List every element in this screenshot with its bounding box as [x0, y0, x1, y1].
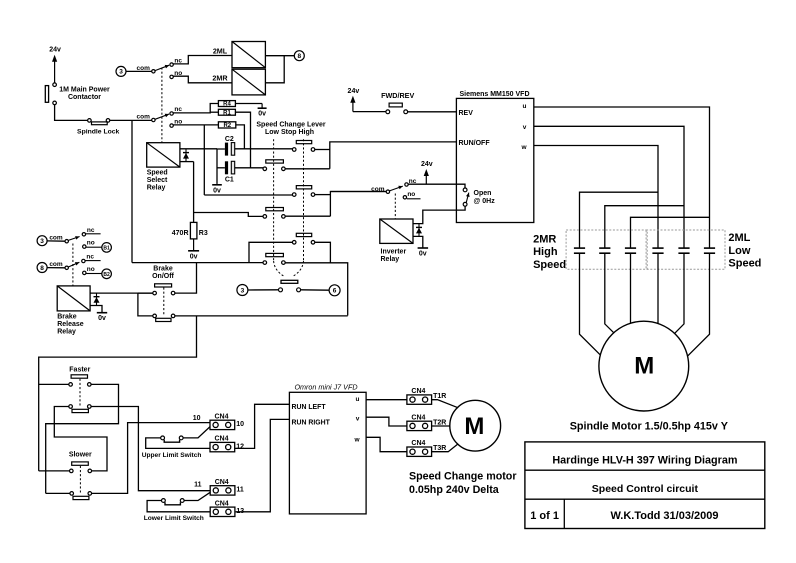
lower limit switch [162, 499, 166, 503]
svg-text:0v: 0v [98, 315, 106, 322]
flyback diode (inverter relay) [418, 224, 420, 237]
connector CN4-12 [210, 442, 235, 451]
svg-text:CN4: CN4 [411, 388, 425, 395]
svg-text:Inverter: Inverter [381, 249, 407, 256]
svg-text:Low Stop High: Low Stop High [265, 129, 314, 136]
slower bar upper [72, 462, 89, 465]
svg-text:10: 10 [193, 415, 201, 422]
brake on/off link (dashed) [163, 288, 165, 316]
terminal 3 (top) [116, 66, 126, 76]
wire no2 to R2 [173, 124, 218, 126]
svg-text:com: com [49, 235, 63, 242]
wire upper limit right to CN4-10 [183, 427, 210, 438]
wire motor lead 5 [675, 253, 684, 333]
wire terminal3 to com1 [126, 70, 152, 72]
svg-text:nc: nc [87, 227, 95, 234]
wire pair2 right to riser [285, 168, 330, 170]
capacitor C1 [225, 161, 228, 174]
title block frame [525, 442, 765, 529]
wire inverter relay bottom to ground [413, 236, 423, 247]
svg-text:W.K.Todd 31/03/2009: W.K.Todd 31/03/2009 [610, 510, 718, 522]
resistor R4 [218, 101, 235, 107]
brake sw1 no [83, 245, 86, 248]
wire motor lead 3 [630, 253, 632, 323]
svg-text:Contactor: Contactor [68, 94, 101, 101]
svg-text:R2: R2 [223, 123, 231, 129]
connector CN4-T3R [407, 447, 432, 456]
svg-text:v: v [356, 416, 360, 423]
relay Brake Release (coil) [57, 286, 90, 311]
mechanical link com1-com2-speed select relay (dashed) [161, 68, 163, 143]
svg-text:470R: 470R [172, 230, 189, 237]
wire v phase [534, 126, 684, 247]
wire com line to pair6 left [132, 262, 263, 264]
svg-text:com: com [49, 261, 63, 268]
title block column line [563, 499, 565, 528]
relay coil 2MR [232, 69, 265, 95]
faster contacts lower [69, 405, 73, 409]
wire v branch to 2MR bank [605, 206, 684, 248]
wire faster bottom-right to CN4-11 [91, 407, 210, 491]
svg-text:0v: 0v [419, 251, 427, 258]
lever stop contacts [279, 288, 283, 292]
svg-text:B1: B1 [103, 246, 110, 252]
nc2 contact [170, 112, 173, 115]
lever pair2 bar [266, 160, 284, 163]
brake sw2 com pivot [65, 266, 68, 269]
connector CN4-T1R [407, 395, 432, 404]
wire T2R to motor [432, 425, 450, 427]
svg-text:Speed: Speed [147, 170, 168, 177]
lever pair5 bar [296, 233, 311, 236]
lever pair6 bar [266, 253, 284, 256]
wire terminal3 to com [47, 240, 65, 242]
wire speed-select bottom terminal to R3 [180, 161, 194, 163]
lever pair1 contacts [292, 148, 296, 152]
svg-text:Faster: Faster [69, 367, 90, 374]
wire pair3 right to inverter com [315, 194, 331, 196]
wire brake on/off left link [138, 292, 153, 294]
brake sw1 nc [82, 233, 85, 236]
svg-text:com: com [137, 114, 151, 121]
svg-text:RUN/OFF: RUN/OFF [459, 140, 491, 147]
VFD Omron mini J7 (box) [289, 392, 366, 514]
wire pair5 left [249, 242, 292, 262]
wire brake on/off top right up [175, 263, 197, 294]
svg-text:REV: REV [459, 110, 474, 117]
svg-text:B2: B2 [103, 272, 110, 278]
wire terminal8 to com [47, 267, 65, 269]
wire pair6 right to box corner [285, 263, 348, 316]
VFD Siemens MM150 (box) [456, 98, 533, 222]
wire faster top-right down [46, 384, 119, 493]
svg-text:2ML: 2ML [728, 232, 750, 244]
wire C2/C1 left plates to ground [217, 149, 225, 183]
resistor R3 [190, 222, 197, 239]
svg-text:12: 12 [236, 443, 244, 450]
svg-text:Select: Select [147, 177, 168, 184]
wire Open contact to inverter relay coil [413, 206, 465, 223]
wire u branch to 2MR bank [631, 217, 710, 247]
faster contacts upper [69, 383, 73, 387]
relay Speed Select (coil) [147, 143, 180, 167]
inverter nc contact [405, 183, 408, 186]
svg-text:11: 11 [194, 482, 202, 489]
com1 pivot [152, 70, 155, 73]
svg-text:Omron mini J7 VFD: Omron mini J7 VFD [294, 383, 357, 392]
contact 2ML-3 [704, 247, 715, 249]
slower link (dashed) [79, 466, 81, 493]
svg-text:Speed Change motor: Speed Change motor [409, 471, 516, 483]
wire pair3 left (from no2 net) [204, 194, 292, 196]
wire omron w to CN4-T3R [366, 437, 407, 451]
com2 pivot [152, 118, 155, 121]
svg-text:3: 3 [119, 69, 123, 76]
svg-text:8: 8 [297, 53, 301, 60]
brake sw2 no [83, 271, 86, 274]
wire omron u to CN4-T1R [366, 399, 407, 401]
terminal 3 (lever) [237, 285, 248, 296]
connector CN4-11 [210, 486, 235, 495]
connector CN4-T2R [407, 421, 432, 430]
inverter no contact [403, 196, 406, 199]
svg-text:Speed Change Lever: Speed Change Lever [256, 122, 326, 129]
svg-text:v: v [523, 124, 527, 131]
wire C1 right to lever pair2 [235, 167, 263, 169]
no1 contact [170, 75, 173, 78]
svg-text:RUN LEFT: RUN LEFT [292, 404, 327, 411]
wire slower bottom-left left [46, 492, 70, 494]
spindle lock switch [88, 119, 92, 123]
svg-text:Siemens MM150 VFD: Siemens MM150 VFD [459, 91, 529, 98]
svg-text:R4: R4 [223, 102, 231, 108]
wire riser pair3/pair4 to com [330, 192, 386, 217]
inverter com pivot [386, 190, 389, 193]
ground 0v at R4 [261, 104, 263, 109]
wire w phase [534, 146, 658, 248]
upper limit switch [161, 436, 165, 440]
ground 0v at C1/C2 [216, 183, 218, 185]
svg-text:Spindle Motor 1.5/0.5hp 415v: Spindle Motor 1.5/0.5hp 415v Y [570, 420, 729, 432]
svg-text:2MR: 2MR [212, 74, 228, 83]
svg-text:Speed Control circuit: Speed Control circuit [592, 483, 699, 495]
svg-text:u: u [356, 396, 360, 403]
wire u phase [534, 107, 710, 248]
wire 2ML/2MR coils to terminal 8 [265, 55, 294, 57]
contact 2MR-1 [574, 247, 585, 249]
wire spindle lock to com2 [110, 119, 152, 121]
svg-text:FWD/REV: FWD/REV [381, 91, 414, 100]
svg-text:24v: 24v [348, 88, 360, 95]
terminal 8 (top) [294, 51, 304, 61]
lever linkage dashed right [303, 139, 305, 261]
wire lower limit right to CN4-11 [184, 492, 210, 500]
svg-text:com: com [137, 65, 151, 72]
wire 1M contactor to spindle lock [55, 105, 88, 121]
svg-text:CN4: CN4 [215, 479, 229, 486]
wire pair5 right down [315, 242, 331, 262]
svg-text:Spindle Lock: Spindle Lock [77, 129, 120, 136]
relay coil 2ML [232, 42, 265, 68]
terminal 8 (brake) [37, 263, 47, 273]
svg-text:1M Main Power: 1M Main Power [59, 87, 110, 94]
wire CN4-12 to RUN LEFT [235, 404, 290, 448]
wire motor lead 4 [657, 253, 659, 323]
brake sw1 com pivot [65, 240, 68, 243]
wire R1 right down to C1 line [235, 112, 250, 168]
wire terminal3 to stop contact [248, 289, 279, 291]
motor M (speed change) [450, 400, 501, 451]
svg-text:Upper Limit Switch: Upper Limit Switch [142, 452, 202, 459]
wire no2-junction down to pair3 [203, 125, 205, 195]
svg-text:10: 10 [236, 421, 244, 428]
wire w branch to 2MR bank [580, 192, 659, 247]
slower contacts lower [70, 492, 74, 496]
wire brake-relay top terminal to brake switch [90, 292, 153, 294]
wire faster bottom-left to slower top-right [54, 407, 107, 471]
no2 contact [170, 124, 173, 127]
lever stop actuator bar [281, 280, 298, 283]
wire 24v to FWD/REV [353, 111, 386, 113]
title block row line 1 [525, 469, 765, 471]
lever pair3 contacts [292, 193, 296, 197]
contactor bank 2ML (dashed box) [646, 230, 725, 269]
svg-text:24v: 24v [49, 47, 61, 54]
lever pair2 contacts [263, 167, 267, 171]
terminal B2 [102, 269, 112, 279]
wire brake on/off bottom right long [175, 315, 348, 317]
ground 0v at R3 [193, 239, 195, 251]
brake on/off contacts lower [153, 314, 157, 318]
flyback diode (speed select relay) [185, 149, 187, 162]
svg-text:Lower Limit Switch: Lower Limit Switch [144, 515, 204, 522]
svg-text:2MR: 2MR [533, 234, 556, 246]
mechanical link brake switches to relay (dashed) [72, 244, 74, 286]
wire nc to Open@0Hz [408, 184, 465, 188]
svg-text:On/Off: On/Off [152, 273, 174, 280]
svg-text:w: w [520, 144, 527, 151]
wire pair1 right to RUN/OFF [315, 149, 330, 151]
svg-text:Relay: Relay [381, 256, 400, 263]
svg-text:RUN RIGHT: RUN RIGHT [292, 420, 331, 427]
connector CN4-10 [210, 420, 235, 429]
wire omron v to CN4-T2R [366, 417, 407, 426]
wire no1 to 2MR coil [173, 76, 232, 83]
1M contactor coil bar [45, 86, 48, 103]
lever linkage V converge (dashed) [274, 261, 285, 277]
svg-text:Brake: Brake [153, 266, 173, 273]
brake on/off contacts upper [153, 291, 157, 295]
svg-text:M: M [634, 353, 654, 380]
svg-text:@ 0Hz: @ 0Hz [474, 198, 496, 205]
contact 2ML-2 [678, 247, 689, 249]
mechanical link inverter sw to relay (dashed) [394, 194, 396, 219]
svg-text:8: 8 [40, 265, 44, 272]
ground 0v at brake relay [101, 311, 103, 313]
contact 2MR-2 [599, 247, 610, 249]
wire C2 right to lever pair1 [235, 148, 293, 150]
wire feed to faster top-left [39, 383, 69, 385]
switch2 arm [155, 114, 169, 119]
lever linkage dashed left [273, 139, 275, 261]
lever pair3 bar [296, 186, 311, 189]
svg-text:w: w [353, 436, 360, 443]
svg-text:Speed: Speed [533, 259, 566, 271]
wire FWD/REV to REV pin [408, 111, 457, 113]
svg-text:3: 3 [40, 238, 44, 245]
wire slower bottom-right to CN4-10 [92, 423, 210, 494]
svg-text:Release: Release [57, 321, 84, 328]
contactor bank 2MR (dashed box) [566, 230, 647, 269]
svg-text:CN4: CN4 [215, 500, 229, 507]
svg-text:0.05hp 240v Delta: 0.05hp 240v Delta [409, 484, 500, 496]
svg-text:Relay: Relay [57, 329, 76, 336]
svg-text:24v: 24v [421, 161, 433, 168]
switch1 arm [155, 65, 169, 70]
svg-text:Relay: Relay [147, 185, 166, 192]
svg-text:0v: 0v [190, 253, 198, 260]
svg-text:CN4: CN4 [214, 436, 228, 443]
slower contacts upper [70, 469, 74, 473]
svg-text:R1: R1 [223, 110, 231, 116]
lever pair6 contacts [263, 261, 267, 265]
faster bar upper [71, 375, 87, 378]
wire feed to slower top-left [39, 470, 70, 472]
slower bar lower [73, 496, 89, 499]
svg-text:Hardinge HLV-H 397 Wiring Diag: Hardinge HLV-H 397 Wiring Diagram [552, 454, 737, 466]
svg-text:no: no [407, 191, 415, 198]
wire lower limit left to CN4-13 [147, 501, 210, 512]
brake sw1 arm [68, 237, 79, 241]
contact Open @ 0Hz [463, 188, 467, 192]
wire motor lead 1 [580, 253, 601, 355]
wire speed-select top terminal [180, 148, 217, 150]
svg-text:High: High [533, 246, 558, 258]
contact of 1M contactor (lower) [53, 101, 57, 105]
svg-text:3: 3 [241, 287, 245, 294]
resistor R1 [218, 109, 235, 115]
terminal B1 [102, 243, 112, 253]
wire motor lead 6 [688, 253, 710, 356]
contact 2MR-3 [625, 247, 636, 249]
svg-text:6: 6 [333, 288, 337, 295]
svg-text:2ML: 2ML [213, 47, 228, 56]
wire motor lead 2 [605, 253, 614, 333]
brake sw2 nc [82, 259, 85, 262]
svg-text:CN4: CN4 [411, 414, 425, 421]
svg-text:no: no [87, 240, 95, 247]
brake on/off bar lower [156, 318, 171, 321]
svg-text:nc: nc [86, 254, 94, 261]
relay Inverter (coil) [380, 219, 413, 243]
wire brake-relay bottom to ground [90, 306, 102, 313]
wire R4 to 0v [235, 103, 262, 105]
connector CN4-13 [210, 507, 235, 516]
svg-text:M: M [464, 413, 484, 440]
switch FWD/REV [389, 103, 402, 107]
terminal 6 (lever) [329, 285, 340, 296]
ground 0v at inverter relay [422, 247, 424, 249]
brake sw2 arm [68, 262, 79, 267]
wire com line (inverter) [330, 191, 386, 193]
svg-text:u: u [523, 103, 527, 110]
wire pair4 right to riser [285, 215, 330, 217]
wire upper limit left to CN4-12 [146, 438, 210, 449]
wire nc1 to 2ML coil [173, 56, 232, 64]
svg-text:Open: Open [474, 190, 492, 197]
wire vertical RUN/OFF riser [330, 142, 457, 169]
title block row line 2 [525, 498, 765, 500]
svg-text:C2: C2 [225, 136, 234, 143]
terminal 3 (brake) [37, 236, 47, 246]
svg-text:Slower: Slower [69, 452, 92, 459]
svg-text:Speed: Speed [728, 258, 761, 270]
wire junction down to faster/slower feed [39, 316, 197, 471]
faster bar lower [72, 409, 88, 412]
resistor R2 [218, 122, 235, 128]
wire T1R to motor [432, 400, 459, 408]
lever pair5 contacts [292, 241, 296, 245]
svg-text:0v: 0v [213, 187, 221, 194]
lever pair4 bar [266, 208, 284, 211]
inverter sw arm [390, 186, 403, 191]
brake on/off bar upper [155, 284, 172, 287]
svg-text:Low: Low [728, 245, 750, 257]
svg-text:C1: C1 [225, 177, 234, 184]
wire CN4-13 to RUN RIGHT [236, 419, 290, 511]
contact 2ML-1 [652, 247, 663, 249]
wire relay/R3 junction to lever pair4 [194, 213, 263, 217]
svg-text:CN4: CN4 [411, 440, 425, 447]
wire stop contact to terminal 6 [301, 289, 330, 291]
svg-text:1 of 1: 1 of 1 [530, 510, 559, 522]
faster link (dashed) [79, 379, 81, 406]
svg-text:nc: nc [174, 106, 182, 113]
contact of 1M contactor (upper) [53, 83, 57, 87]
nc1 contact [170, 63, 173, 66]
wire nc2 to R4/R1 [173, 104, 218, 113]
lever pair4 contacts [263, 215, 267, 219]
wire R2 right down to C2 line [236, 125, 245, 149]
flyback diode (brake relay) [96, 293, 98, 305]
svg-text:0v: 0v [258, 111, 266, 118]
svg-text:R3: R3 [199, 230, 208, 237]
svg-text:CN4: CN4 [214, 413, 228, 420]
wire T3R to motor [432, 444, 459, 452]
svg-text:11: 11 [236, 487, 244, 494]
svg-text:no: no [87, 266, 95, 273]
lever pair1 bar [296, 141, 311, 144]
wire node down from spindle-lock line [131, 120, 133, 262]
motor M (spindle) [599, 321, 689, 411]
svg-text:Brake: Brake [57, 314, 77, 321]
